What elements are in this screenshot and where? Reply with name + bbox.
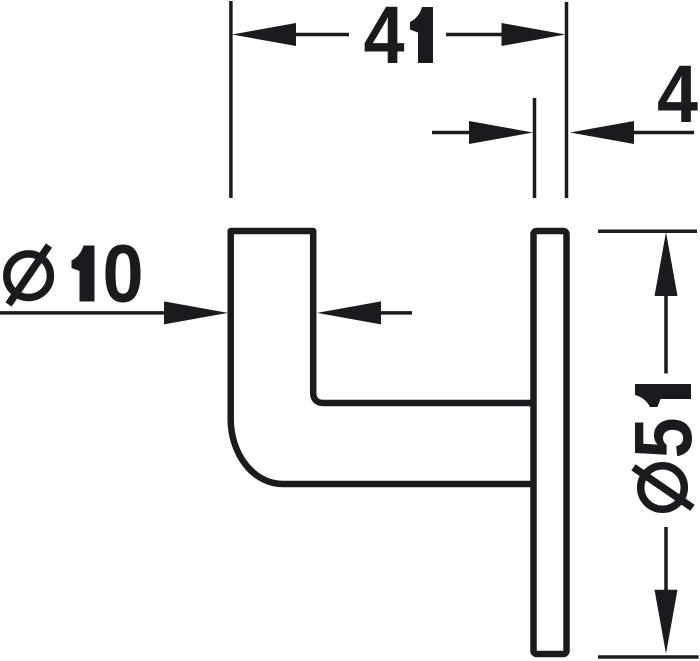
dimension 41: right extension line xyxy=(565,2,569,198)
dimension 4: right arrow xyxy=(570,121,694,144)
dimension Ø51: bottom arrow xyxy=(655,527,678,654)
dimension 41: left arrow xyxy=(232,23,349,46)
dimension 41: left extension line xyxy=(229,1,233,198)
dimension 41: right arrow xyxy=(446,23,566,46)
dimension Ø51: top extension line xyxy=(598,230,697,234)
dimension Ø10: right arrow xyxy=(317,301,412,324)
svg-text:4: 4 xyxy=(363,0,404,81)
dimension 4: left extension line xyxy=(533,98,537,198)
dimension Ø51: top arrow xyxy=(655,232,678,374)
hook body outline (rod profile) xyxy=(231,231,534,484)
svg-text:5: 5 xyxy=(616,417,700,458)
svg-text:0: 0 xyxy=(102,227,143,320)
dimension 4: left arrow xyxy=(432,121,533,144)
dimension Ø51: diameter symbol (rotated) xyxy=(634,466,693,510)
wall plate (side view) xyxy=(534,231,567,654)
dimension Ø10: value digits 10 xyxy=(72,227,144,320)
svg-text:4: 4 xyxy=(657,47,698,140)
dimension Ø51: value digits 51 (rotated) xyxy=(616,384,700,459)
dimension Ø10: left leader arrow xyxy=(0,301,228,324)
dimension 41: value digits 41 xyxy=(363,0,433,81)
dimension Ø10: diameter symbol xyxy=(7,246,51,305)
dimension Ø51: bottom extension line xyxy=(598,655,699,659)
